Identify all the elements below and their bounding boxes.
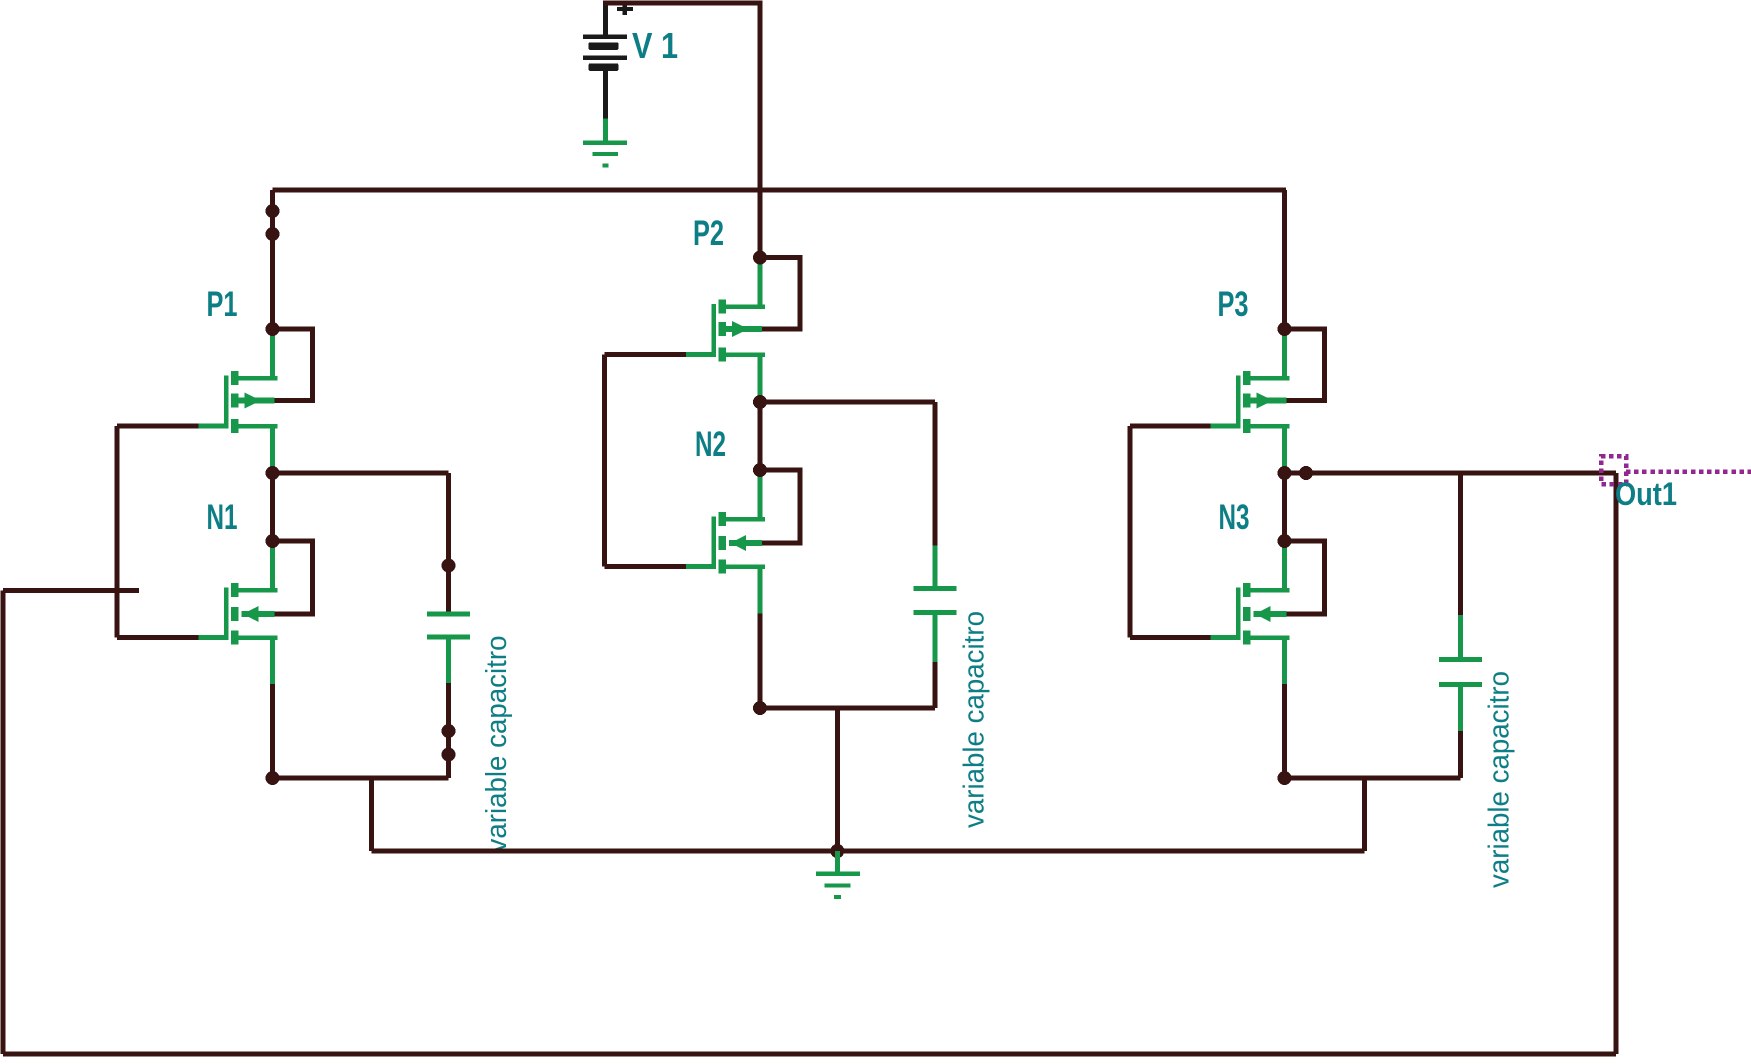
wire VDD rail [273, 188, 1287, 193]
wire P2 bulk tie loop [760, 258, 800, 330]
wire P3 bulk tie loop [1285, 329, 1325, 401]
wire VDD to P1 source [270, 190, 275, 329]
wire P1 bulk tie loop [273, 329, 313, 401]
wire stage3 gate loop [1130, 426, 1211, 638]
voltage source V1 [583, 1, 633, 119]
wire Out vertical to feedback [1614, 473, 1619, 1054]
wire feedback left vertical [1, 591, 6, 1055]
junction stage2 bottom [753, 701, 767, 715]
wire stage1 to GND rail [369, 778, 374, 851]
wire C2 bottom branch [933, 662, 938, 708]
svg-text:P3: P3 [1218, 285, 1249, 324]
wire Out net horizontal [1285, 471, 1617, 476]
wire stage3 output node [1282, 473, 1287, 541]
svg-text:variable capacitro: variable capacitro [959, 611, 991, 828]
svg-text:N1: N1 [207, 498, 238, 537]
svg-text:P1: P1 [207, 285, 238, 324]
wire stage1 gate loop [117, 426, 199, 638]
port Out1 [1601, 456, 1626, 484]
wire feedback bottom horizontal [3, 1052, 1616, 1057]
ground (main) [816, 851, 860, 897]
junction N3 drain [1278, 534, 1292, 548]
svg-text:N3: N3 [1219, 498, 1250, 537]
svg-text:Out1: Out1 [1615, 476, 1677, 512]
transistor P2 [686, 258, 765, 403]
wire stage2 output node [758, 402, 763, 470]
junction [442, 748, 456, 762]
junction stage1 out [266, 466, 280, 480]
svg-text:P2: P2 [693, 214, 724, 253]
junction stage3 bottom [1278, 771, 1292, 785]
wire N3 source down [1282, 684, 1287, 778]
wire N1 source down [270, 684, 275, 778]
wire VDD to P3 source [1282, 190, 1287, 329]
wire stage2 out to C2 [760, 400, 935, 405]
junction [266, 204, 280, 218]
capacitor C3 (variable) [1439, 615, 1482, 731]
wire GND rail [371, 849, 1364, 854]
wire feedback input stub [3, 588, 139, 593]
ground (below V1) [583, 119, 627, 166]
wire C3 bottom branch [1458, 731, 1463, 778]
wire N1 bulk tie loop [273, 541, 313, 614]
junction stage3 out [1278, 466, 1292, 480]
wire C1 bottom branch [446, 683, 451, 778]
svg-text:variable capacitro: variable capacitro [481, 636, 513, 853]
wire N2 source down [758, 614, 763, 709]
wire N3 bulk tie loop [1285, 541, 1325, 614]
svg-text:N2: N2 [695, 425, 726, 464]
wire stage1 output node [270, 473, 275, 541]
transistor P1 [199, 329, 278, 473]
junction P1 source [266, 322, 280, 336]
wire N2 bulk tie loop [760, 470, 800, 543]
wire Out1 dashed net [1626, 469, 1751, 474]
svg-text:variable capacitro: variable capacitro [1484, 671, 1516, 888]
svg-text:V 1: V 1 [632, 25, 678, 66]
wire stage1 out to C1 [273, 471, 449, 476]
junction N1 drain [266, 534, 280, 548]
junction P3 source [1278, 322, 1292, 336]
junction [442, 559, 456, 573]
junction [442, 724, 456, 738]
wire C3 top branch [1458, 473, 1463, 615]
junction GND [830, 844, 844, 858]
wire C2 top branch [933, 402, 938, 546]
junction N2 drain [753, 463, 767, 477]
capacitor C2 (variable) [914, 546, 957, 663]
wire C1 top branch [446, 473, 451, 612]
wire stage2 bottom horizontal [760, 706, 935, 711]
junction stage3 out b [1299, 466, 1313, 480]
transistor N1 [199, 541, 278, 684]
wire stage3 to GND rail [1362, 778, 1367, 851]
wire VDD to P2 source [758, 190, 763, 258]
transistor N2 [686, 470, 765, 614]
wire stage1 bottom horizontal [273, 776, 449, 781]
transistor P3 [1211, 329, 1290, 473]
wire stage3 bottom horizontal [1285, 776, 1461, 781]
junction P2 source [753, 251, 767, 265]
wire stage2 to GND rail [835, 708, 840, 851]
junction [266, 227, 280, 241]
wire battery top to VDD drop [603, 3, 760, 190]
transistor N3 [1211, 541, 1290, 684]
junction stage1 bottom [266, 771, 280, 785]
wire stage2 gate loop [605, 355, 687, 567]
junction stage2 out [753, 395, 767, 409]
capacitor C1 (variable) [427, 614, 470, 683]
